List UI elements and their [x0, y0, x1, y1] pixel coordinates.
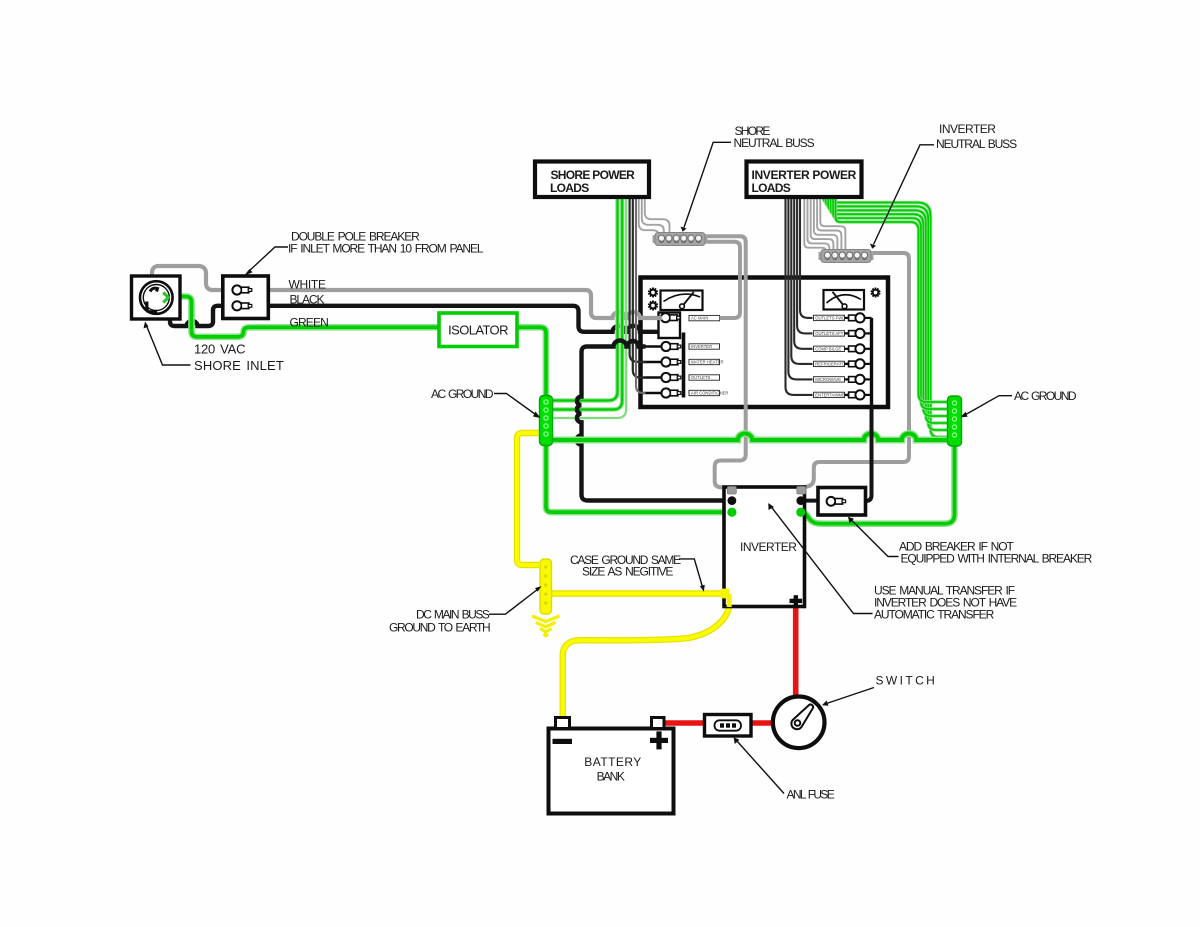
label: DC MAIN BUSS GROUND TO EARTH: [389, 586, 542, 634]
battery bank box: [549, 718, 674, 814]
branch breaker R4: [814, 359, 872, 368]
AC voltmeter left: [661, 291, 703, 311]
inverter AC terminal gray right: [797, 487, 806, 495]
add-on breaker box: [818, 488, 866, 516]
wire: shore neutral thin 1 to neutral buss: [639, 197, 658, 234]
svg-text:AC GROUND: AC GROUND: [1014, 389, 1077, 403]
branch breaker R1: [814, 313, 872, 322]
label: AC GROUND left: [431, 387, 541, 418]
label: ANL FUSE: [734, 737, 835, 801]
inverter power loads box: [747, 162, 862, 198]
DC main buss (yellow): [540, 559, 552, 614]
junction dot: inverter case ground right: [796, 508, 805, 517]
wire: green main ground run to right buss: [546, 433, 948, 440]
label: 120 VAC SHORE INLET: [144, 322, 284, 374]
svg-text:GROUND TO EARTH: GROUND TO EARTH: [389, 621, 490, 635]
label: SWITCH: [822, 674, 937, 706]
label: ADD BREAKER IF NOT EQUIPPED WITH INTERNAL BREAKER: [848, 517, 1093, 566]
svg-text:AC GROUND: AC GROUND: [431, 387, 494, 401]
wire: shore neutral thin 3 to neutral buss: [645, 197, 670, 234]
svg-text:ANL FUSE: ANL FUSE: [787, 788, 835, 802]
branch breaker L4: [642, 388, 728, 397]
wire: yellow AC buss to DC main buss: [517, 433, 541, 565]
isolator box: [439, 313, 517, 347]
wire: shore neutral thin 2 to neutral buss: [642, 197, 664, 234]
wire: green left buss down to inverter case ground: [546, 445, 729, 512]
wire: white neutral breaker to panel AC MAIN (long gray run): [268, 290, 662, 318]
panel gear icon 2: [648, 300, 658, 310]
battery switch: [773, 697, 825, 749]
svg-text:COMP BILGE: COMP BILGE: [815, 346, 841, 351]
svg-text:GREEN: GREEN: [290, 316, 329, 330]
label: SHORE NEUTRAL BUSS: [681, 124, 815, 232]
AC voltmeter right: [824, 290, 865, 310]
wire: green shore loads wire 1 to ground buss: [553, 197, 618, 401]
breaker panel main box: [641, 278, 889, 408]
shore power loads box: [535, 162, 649, 198]
branch breaker R3: [814, 344, 872, 353]
wire: black shore load feed 2 from panel: [633, 197, 646, 378]
svg-text:SHORE POWER: SHORE POWER: [551, 168, 636, 182]
label: INVERTER NEUTRAL BUSS: [870, 122, 1017, 249]
svg-text:OUTLETS AFT: OUTLETS AFT: [815, 331, 844, 336]
inverter AC terminal gray left: [727, 487, 736, 495]
left AC ground buss: [540, 396, 553, 446]
inverter box: [724, 487, 805, 607]
shore neutral buss: [653, 233, 708, 246]
wire: green right buss down to inverter case ground: [801, 445, 955, 524]
svg-text:WATER HEATER: WATER HEATER: [691, 360, 724, 365]
branch breaker L2: [642, 357, 724, 366]
panel bus bar left section: [682, 333, 686, 398]
AC MAIN label: [689, 315, 720, 320]
wire: gray shore neutral buss to AC MAIN breaker: [705, 242, 740, 318]
branch breaker R2: [814, 329, 872, 338]
svg-text:IF INLET MORE THAN 10 FROM PAN: IF INLET MORE THAN 10 FROM PANEL: [288, 242, 484, 256]
wire: inverter loads neutral fan (6 thin gray): [804, 197, 845, 250]
inverter neutral buss: [819, 250, 874, 263]
svg-text:LOADS: LOADS: [550, 181, 589, 195]
branch breaker L1: [642, 342, 720, 351]
svg-text:REFRIGERATOR: REFRIGERATOR: [815, 362, 848, 367]
label: USE MANUAL TRANSFER note: [768, 503, 1017, 622]
branch breaker R5: [814, 375, 872, 384]
wire: yellow negative cable inverter case to battery: [563, 597, 730, 717]
svg-text:EQUIPPED WITH INTERNAL BREAKER: EQUIPPED WITH INTERNAL BREAKER: [901, 552, 1093, 566]
wire: black shore load feed 1 from panel: [630, 197, 646, 362]
wire: green shore loads wire 3 to ground buss: [553, 197, 626, 418]
wire: green shore loads wire 2 to ground buss: [553, 197, 622, 410]
svg-text:OUTLETS FWD: OUTLETS FWD: [815, 316, 845, 321]
svg-text:INVERTER POWER: INVERTER POWER: [752, 168, 857, 182]
svg-text:AC MAIN: AC MAIN: [691, 316, 708, 321]
label: DOUBLE POLE BREAKER note: [244, 230, 484, 276]
wire: gray shore neutral buss through panel to inverter AC-in neutral: [705, 236, 746, 487]
wire: green isolator to left AC ground buss: [517, 327, 547, 397]
yellow terminal dash on inverter left edge: [721, 589, 730, 599]
wire: black hot breaker to panel main breaker (long black run): [268, 306, 659, 332]
wire: black add-on breaker to inverter AC-out hot: [803, 499, 820, 503]
double pole breaker: [223, 276, 268, 319]
svg-text:BATTERY: BATTERY: [584, 755, 641, 769]
wire: red fuse to switch: [750, 720, 774, 726]
svg-text:LOADS: LOADS: [752, 181, 791, 195]
shore inlet: [132, 276, 181, 319]
label: AC GROUND right: [961, 389, 1077, 417]
inverter positive + mark: [790, 595, 803, 606]
yellow case wire wrap at inverter corner: [727, 594, 732, 607]
svg-text:AUTOMATIC TRANSFER: AUTOMATIC TRANSFER: [874, 608, 995, 622]
svg-text:AIR CONDITIONER: AIR CONDITIONER: [691, 391, 728, 396]
svg-text:MICROWAVE: MICROWAVE: [815, 377, 841, 382]
svg-text:BLACK: BLACK: [290, 293, 325, 307]
wire: black right panel bus down to add-on breaker: [864, 405, 872, 501]
wire: gray shore load feed 3 from panel: [636, 197, 646, 393]
wire: inverter loads black feeds into right panel (6 thin): [786, 197, 813, 395]
wire: gray inverter neutral buss to inverter AC-out neutral: [803, 253, 909, 487]
junction dot: inverter hot out: [796, 496, 805, 505]
svg-text:SIZE AS NEGITIVE: SIZE AS NEGITIVE: [582, 565, 673, 579]
panel gear icon 3 (right): [871, 287, 881, 297]
wire: red battery positive to ANL fuse: [664, 720, 706, 726]
svg-text:NEUTRAL BUSS: NEUTRAL BUSS: [734, 136, 815, 150]
svg-text:INVERTER: INVERTER: [939, 122, 996, 136]
ANL fuse box: [705, 715, 752, 737]
svg-text:SWITCH: SWITCH: [876, 674, 938, 688]
label: CASE GROUND SAME SIZE AS NEGITIVE: [570, 553, 705, 592]
svg-text:NEUTRAL BUSS: NEUTRAL BUSS: [936, 137, 1017, 151]
right panel bus bar: [870, 318, 873, 406]
svg-text:ISOLATOR: ISOLATOR: [448, 323, 508, 338]
wire: yellow case ground to inverter: [552, 590, 724, 596]
svg-text:INVERTER: INVERTER: [691, 344, 712, 349]
right AC ground buss: [948, 396, 962, 446]
earth ground symbol (yellow): [532, 616, 560, 636]
svg-text:OUTLETS: OUTLETS: [691, 375, 711, 380]
svg-text:120 VAC: 120 VAC: [194, 342, 245, 357]
wire: inverter loads green bundle to right AC ground buss (6): [824, 197, 949, 437]
junction dot: inverter hot in: [728, 496, 737, 505]
junction dot: inverter case ground left: [727, 508, 736, 517]
svg-text:WHITE: WHITE: [289, 278, 326, 292]
svg-text:SHORE INLET: SHORE INLET: [194, 358, 284, 373]
branch breaker R6: [814, 390, 872, 399]
AC MAIN double breaker in panel: [659, 313, 681, 339]
svg-text:INVERTER: INVERTER: [740, 540, 797, 554]
wire: white neutral from shore inlet up to double pole breaker: [152, 266, 223, 290]
svg-text:DC MAIN BUSS: DC MAIN BUSS: [416, 608, 490, 622]
wire: red switch to inverter positive: [793, 607, 799, 698]
panel gear icon 1: [648, 287, 658, 297]
wire: black breaker1 feed down to inverter AC-in hot: [576, 341, 729, 501]
branch breaker L3: [642, 373, 720, 382]
wire: black hot from inlet to double pole breaker: [170, 306, 223, 326]
wire: green ground from inlet to isolator: [166, 297, 439, 337]
svg-text:BANK: BANK: [597, 770, 625, 784]
